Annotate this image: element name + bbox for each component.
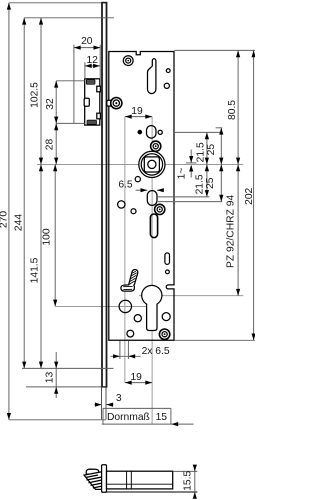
dim 21.5 upper [175, 132, 222, 164]
svg-text:20: 20 [81, 36, 93, 47]
dim 6.5 follower oval [118, 179, 163, 192]
faceplate left edge [101, 3, 103, 387]
euro profile cylinder hole [142, 285, 162, 330]
bottom view latch head cap [86, 469, 99, 474]
centerline follower axis vertical [151, 117, 153, 425]
svg-text:32: 32 [45, 98, 56, 110]
hole mid left [118, 201, 125, 208]
svg-text:19: 19 [131, 106, 143, 117]
faceplate thick bottom cap [101, 386, 107, 388]
hole below follower left [135, 177, 140, 182]
dim 244 [14, 18, 115, 369]
bottom view lower plate line [107, 491, 198, 493]
svg-text:PZ 92/CHRZ 94: PZ 92/CHRZ 94 [225, 195, 236, 269]
dim 2x 6.5 bottom holes [111, 341, 170, 359]
svg-text:6.5: 6.5 [118, 179, 133, 190]
svg-text:15.5: 15.5 [183, 471, 194, 491]
hole right upper [164, 83, 169, 88]
dim 1~ play [177, 150, 197, 180]
dim 100 [42, 164, 58, 306]
hole left of cylinder [119, 300, 131, 312]
svg-text:1~: 1~ [177, 168, 188, 180]
svg-text:2x 6.5: 2x 6.5 [142, 346, 170, 357]
svg-text:244: 244 [14, 214, 25, 231]
oval slot above follower [147, 126, 157, 139]
Dornmass table [102, 408, 194, 426]
dim 80.5 right [174, 50, 255, 164]
bold small hole [131, 209, 136, 214]
svg-text:28: 28 [44, 139, 55, 151]
centerline follower axis horizontal [37, 163, 243, 165]
black dot hole [138, 130, 143, 135]
screw B faceplate fixing top with tab [107, 98, 122, 109]
small hole right of oval [158, 130, 162, 134]
svg-text:202: 202 [244, 187, 255, 204]
dim 25 upper [206, 128, 224, 165]
keyhole slot top of case [148, 59, 156, 94]
dim PZ 92 CHRZ 94 [225, 164, 240, 295]
svg-text:3: 3 [116, 393, 122, 404]
small hole below left [134, 315, 141, 322]
svg-text:25: 25 [206, 144, 217, 156]
dim 28 [44, 123, 58, 164]
follower nut with square spindle hole [139, 151, 165, 177]
dim 12 [85, 55, 100, 79]
long bold slot below follower [150, 214, 157, 238]
strike profile cross-section box [84, 79, 100, 125]
dim 141.5 [29, 164, 43, 368]
svg-text:102.5: 102.5 [29, 82, 40, 108]
bottom view faceplate bar [102, 465, 107, 493]
svg-text:19: 19 [130, 372, 142, 383]
svg-text:21.5: 21.5 [195, 174, 206, 194]
dim 202 right outer [174, 50, 255, 340]
svg-text:270: 270 [0, 211, 10, 228]
centerline hole axis horizontal [55, 305, 146, 307]
dim 32 [45, 81, 85, 124]
dim 20 top [74, 36, 100, 124]
svg-text:12: 12 [86, 55, 98, 66]
faceplate bottom thin section left [101, 387, 103, 420]
bold hole bottom near faceplate [127, 330, 134, 337]
faceplate bottom thin section right [105, 387, 107, 420]
dim 19 bottom [125, 372, 152, 385]
screw F [155, 204, 165, 214]
small hole top right [166, 69, 170, 73]
dim 13 [26, 352, 102, 398]
dim 15.5 bottom view [173, 465, 198, 499]
screw E bottom right [159, 329, 169, 339]
svg-text:Dornmaß: Dornmaß [107, 412, 150, 423]
screw C above follower [151, 141, 161, 151]
svg-text:25: 25 [205, 177, 216, 189]
small hole under slot [166, 270, 170, 274]
svg-text:100: 100 [42, 228, 53, 245]
centerline hole axis vertical [124, 117, 126, 383]
lever boot shaped part [121, 269, 138, 291]
lock case outline with top notch and right edge hook slot [109, 52, 174, 341]
svg-text:13: 13 [45, 372, 56, 384]
dim 21.5 lower [157, 164, 210, 197]
faceplate right edge [106, 3, 108, 387]
bottom view case body [107, 471, 173, 489]
svg-text:80.5: 80.5 [227, 100, 238, 120]
svg-text:15: 15 [156, 412, 168, 423]
faceplate top cap [101, 2, 107, 4]
dim 3 faceplate thickness [95, 393, 122, 407]
dim 102.5 [29, 18, 43, 165]
dim 25 lower [158, 164, 223, 201]
small hole right of cylinder [162, 313, 170, 321]
screw A top left of case [123, 56, 133, 66]
oval slot below follower (6.5 wide) [147, 191, 157, 206]
svg-text:141.5: 141.5 [29, 257, 40, 283]
centerline cylinder axis horizontal [139, 295, 243, 297]
dim 19 top [125, 106, 152, 119]
bottom view latch bevel wedge hatched [84, 472, 102, 490]
small slot right lower [165, 253, 170, 265]
dim 270 left outer [0, 3, 106, 420]
